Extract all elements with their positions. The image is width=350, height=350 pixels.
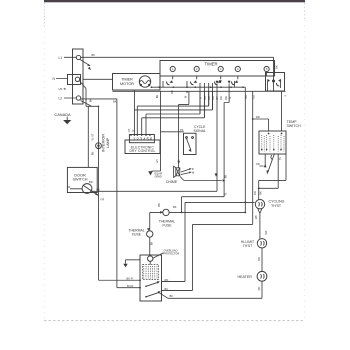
- svg-text:DRY CONTROL: DRY CONTROL: [129, 149, 155, 153]
- svg-text:4: 4: [237, 67, 239, 71]
- svg-text:BK: BK: [224, 96, 228, 100]
- svg-text:SIGNAL: SIGNAL: [193, 129, 206, 133]
- svg-text:US 'B': US 'B': [59, 87, 67, 91]
- svg-text:OR: OR: [256, 162, 260, 166]
- svg-text:R: R: [131, 129, 135, 131]
- svg-text:GY: GY: [127, 128, 131, 132]
- svg-text:TH'ST: TH'ST: [243, 244, 253, 248]
- svg-text:HEATER: HEATER: [238, 275, 253, 279]
- svg-text:BR: BR: [89, 180, 93, 184]
- svg-text:RD: RD: [251, 95, 255, 99]
- svg-text:YL: YL: [228, 96, 232, 100]
- svg-text:PROTECTOR: PROTECTOR: [164, 253, 180, 256]
- svg-text:BK: BK: [157, 203, 161, 207]
- svg-text:RD: RD: [257, 257, 261, 261]
- svg-text:SWITCH: SWITCH: [73, 178, 88, 182]
- svg-text:WF: WF: [254, 215, 258, 219]
- svg-text:WF: WF: [264, 230, 268, 234]
- svg-text:W: W: [184, 95, 188, 98]
- svg-text:CHIME: CHIME: [166, 180, 178, 184]
- svg-text:R: R: [192, 167, 194, 171]
- svg-text:Y-R: Y-R: [100, 197, 104, 201]
- svg-text:FUSE: FUSE: [162, 224, 172, 228]
- svg-text:BU: BU: [170, 90, 174, 94]
- svg-text:GRND: GRND: [155, 176, 163, 179]
- svg-text:BK: BK: [67, 185, 71, 189]
- svg-text:123456: 123456: [133, 137, 153, 142]
- svg-text:W: W: [192, 171, 195, 175]
- svg-text:YL: YL: [278, 156, 282, 160]
- svg-text:2: 2: [196, 67, 198, 71]
- svg-text:BK: BK: [170, 294, 174, 298]
- svg-text:BK: BK: [89, 99, 93, 103]
- svg-text:BK: BK: [92, 53, 96, 57]
- svg-text:BK: BK: [91, 152, 95, 156]
- svg-text:BK: BK: [150, 242, 154, 246]
- svg-text:5: 5: [266, 67, 268, 71]
- svg-text:OR: OR: [211, 96, 215, 100]
- svg-text:BU: BU: [244, 95, 248, 99]
- svg-text:GY: GY: [215, 96, 219, 100]
- svg-text:YL-VT: YL-VT: [91, 133, 95, 141]
- svg-text:N: N: [53, 77, 56, 81]
- svg-text:FUSE: FUSE: [132, 233, 142, 237]
- svg-text:R: R: [199, 97, 203, 99]
- svg-text:BK: BK: [223, 175, 227, 179]
- svg-text:BK-R: BK-R: [127, 277, 133, 281]
- svg-text:L1: L1: [59, 56, 63, 60]
- svg-text:RD: RD: [165, 278, 169, 282]
- svg-text:BK: BK: [155, 95, 159, 99]
- svg-text:RD: RD: [257, 287, 261, 291]
- svg-text:3: 3: [220, 67, 222, 71]
- svg-text:BU: BU: [97, 187, 101, 191]
- svg-text:1: 1: [172, 67, 174, 71]
- svg-text:BU: BU: [165, 287, 169, 291]
- svg-text:BK: BK: [207, 96, 211, 100]
- svg-text:SWITCH: SWITCH: [287, 124, 302, 128]
- svg-text:TH'ST: TH'ST: [271, 204, 282, 208]
- svg-text:T: T: [284, 94, 286, 98]
- svg-text:RD: RD: [256, 115, 260, 119]
- svg-text:BK: BK: [113, 100, 117, 104]
- svg-text:BU: BU: [203, 96, 207, 100]
- svg-text:BK: BK: [274, 65, 278, 69]
- svg-text:LAMP: LAMP: [106, 137, 110, 148]
- svg-text:YL: YL: [223, 192, 227, 196]
- svg-text:W: W: [185, 90, 189, 93]
- svg-text:CANADA: CANADA: [54, 112, 71, 117]
- svg-text:BK: BK: [259, 191, 263, 195]
- svg-text:MOTOR: MOTOR: [120, 82, 134, 86]
- svg-text:GY: GY: [155, 159, 159, 163]
- svg-text:RD: RD: [253, 191, 257, 195]
- svg-text:TIMER: TIMER: [205, 61, 218, 66]
- svg-text:BU-R: BU-R: [127, 284, 133, 288]
- svg-text:TIMER: TIMER: [121, 77, 133, 81]
- svg-text:L2: L2: [59, 97, 63, 101]
- svg-text:BK: BK: [173, 205, 177, 209]
- svg-text:RD: RD: [219, 96, 223, 100]
- svg-text:PK: PK: [180, 128, 184, 132]
